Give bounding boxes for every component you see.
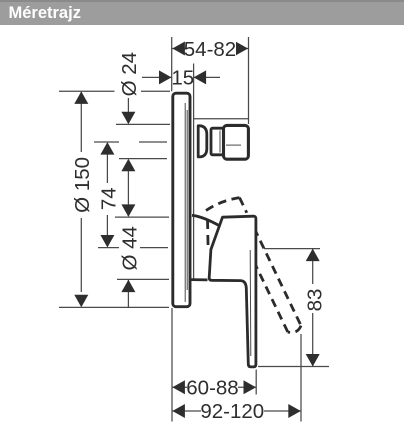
dashed lever hidden heel edge xyxy=(206,219,209,248)
extension line plate front xyxy=(193,64,195,281)
svg-text:Méretrajz: Méretrajz xyxy=(9,4,81,22)
label 54-82 xyxy=(186,40,236,57)
extension line spout bottom (L4) xyxy=(119,158,167,160)
leader line Ø24 xyxy=(127,98,129,123)
sleeve bottom edge xyxy=(191,278,208,281)
label 15 xyxy=(174,68,193,86)
arrow 92-120 right xyxy=(288,404,301,418)
arrow 60-88 left xyxy=(172,380,185,394)
svg-text:74: 74 xyxy=(98,187,121,210)
leader line Ø44 bottom xyxy=(127,280,129,307)
dimension line Ø150 xyxy=(80,92,82,292)
dashed lever heel cap xyxy=(240,198,247,213)
dimension line 92-120 xyxy=(172,410,301,412)
reference line 83 top xyxy=(264,248,320,250)
arrow O24 down xyxy=(121,112,135,125)
dashed lever upper edge xyxy=(247,213,301,326)
reference line spout top step xyxy=(194,118,249,120)
arrow 92-120 left xyxy=(172,404,185,418)
svg-text:Ø 44: Ø 44 xyxy=(118,226,141,270)
arrowheads xyxy=(74,42,319,419)
extension line Ø44 top (L5) xyxy=(115,216,169,218)
dimension line 54-82 xyxy=(172,48,249,50)
escutcheon plate xyxy=(173,93,190,307)
extension line wall bottom xyxy=(171,308,173,422)
reference line lever tip xyxy=(258,366,329,368)
dashed lever alternate position xyxy=(206,198,301,333)
spout collar inner line xyxy=(219,131,221,153)
arrow O24 up xyxy=(121,159,135,172)
arrow 83 top xyxy=(306,249,320,262)
extension line spout centerline (L3) xyxy=(94,141,167,143)
dashed lever tip cap xyxy=(288,326,301,333)
spout collar xyxy=(211,128,224,155)
plate dome line 2 xyxy=(186,110,188,290)
extension line lever front bottom xyxy=(255,370,257,395)
dashed lever heel xyxy=(206,198,240,211)
dimension line 74 xyxy=(106,143,108,246)
extension line plate top left (L1) xyxy=(59,90,170,92)
label O44 xyxy=(119,221,138,275)
label O150 xyxy=(72,152,91,218)
svg-text:92-120: 92-120 xyxy=(200,400,264,423)
label 74 xyxy=(99,183,118,215)
arrow O150 top xyxy=(74,91,88,104)
spout stub xyxy=(224,125,249,159)
arrow 15 left xyxy=(159,70,172,84)
arrow 15 right xyxy=(194,70,207,84)
title bar xyxy=(0,0,404,25)
arrow 74 top xyxy=(100,142,114,155)
svg-text:54-82: 54-82 xyxy=(184,38,236,61)
plate dome line 1 xyxy=(184,103,186,302)
extension line pivot level (L6) xyxy=(98,247,168,249)
extension line spout top (L2) xyxy=(116,123,170,125)
arrow O150 bottom xyxy=(74,295,88,308)
arrow O44 down xyxy=(121,204,135,217)
svg-text:60-88: 60-88 xyxy=(186,377,238,400)
arrow 60-88 right xyxy=(244,380,257,394)
label 60-88 xyxy=(187,379,238,396)
lever handle solid xyxy=(209,216,256,367)
label 83 xyxy=(304,284,323,313)
arrow 74 bottom xyxy=(100,235,114,248)
leader line Ø24-Ø44 xyxy=(127,160,129,216)
sleeve top arc xyxy=(192,215,221,226)
dimension line 83 xyxy=(312,249,314,367)
spout trumpet xyxy=(198,126,207,157)
extension line Ø44 bottom (L7) xyxy=(117,278,169,280)
dashed lever lower edge xyxy=(244,240,288,332)
svg-text:15: 15 xyxy=(171,67,194,90)
arrow 54-82 left xyxy=(172,42,185,56)
arrow O44 up xyxy=(121,280,135,293)
dimension texts xyxy=(71,38,327,423)
arrow 83 bottom xyxy=(306,354,320,367)
extension line plate bottom (L8) xyxy=(59,306,169,308)
dimension line 60-88 xyxy=(172,386,256,388)
arrow 54-82 right xyxy=(236,42,249,56)
svg-text:83: 83 xyxy=(304,289,327,312)
extension line dashed tip xyxy=(300,334,302,422)
label 92-120 xyxy=(201,403,264,419)
svg-text:Ø 24: Ø 24 xyxy=(118,52,141,96)
dimension line 15 tails xyxy=(142,76,220,78)
lever inner line xyxy=(249,250,252,356)
spout stub inner line xyxy=(226,144,241,146)
extension line wall top xyxy=(171,37,173,91)
extension line spout front xyxy=(248,37,250,124)
svg-text:Ø 150: Ø 150 xyxy=(71,157,94,213)
